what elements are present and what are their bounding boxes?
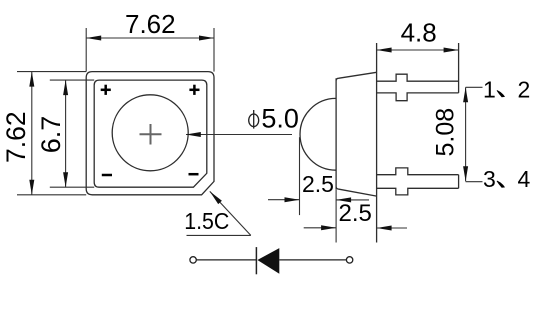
svg-text:4: 4 (518, 166, 531, 192)
svg-text:1.5C: 1.5C (184, 208, 229, 234)
svg-text:7.62: 7.62 (125, 9, 176, 39)
svg-text:4.8: 4.8 (401, 18, 437, 48)
svg-text:5.0: 5.0 (261, 104, 299, 134)
svg-text:6.7: 6.7 (36, 116, 66, 154)
svg-text:2: 2 (518, 77, 531, 103)
svg-text:3: 3 (483, 166, 496, 192)
svg-text:2.5: 2.5 (339, 200, 372, 227)
svg-text:7.62: 7.62 (1, 111, 31, 163)
svg-text:5.08: 5.08 (432, 108, 460, 157)
svg-text:2.5: 2.5 (302, 171, 334, 197)
svg-text:1: 1 (483, 77, 496, 103)
